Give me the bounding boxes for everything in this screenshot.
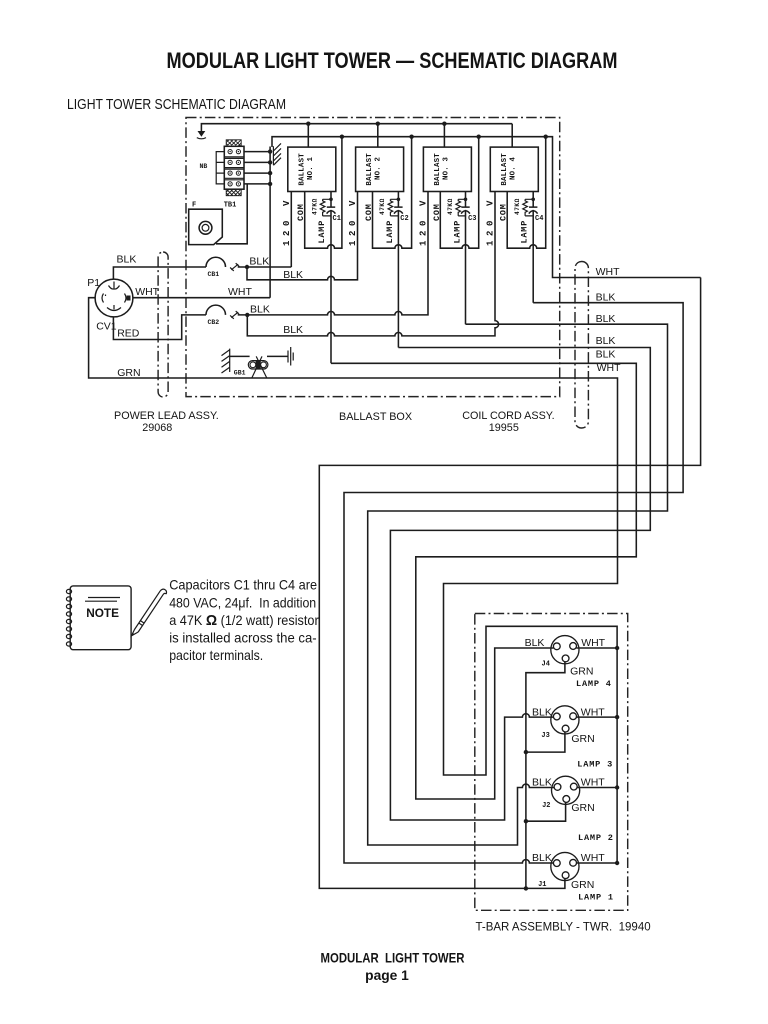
- wire RED plug to CB2: [113, 315, 206, 340]
- svg-text:BLK: BLK: [532, 706, 552, 718]
- svg-text:F: F: [192, 201, 196, 209]
- circuit breaker CB2 blade: [230, 311, 239, 319]
- svg-text:RED: RED: [117, 327, 140, 339]
- svg-text:POWER LEAD ASSY.: POWER LEAD ASSY.: [114, 410, 219, 422]
- wire COM U3 to neutral riser: [440, 137, 478, 249]
- plug P1 right contact: [125, 294, 127, 303]
- wire WHT J3 to bus: [576, 716, 617, 718]
- wire LAMP U1 vertical: [330, 192, 332, 364]
- neutral bus line B: [272, 137, 701, 278]
- svg-text:LAMP: LAMP: [520, 220, 530, 244]
- fuse F wire from TB1 row4: [216, 184, 247, 244]
- svg-text:J2: J2: [542, 802, 550, 810]
- wire GRN J2: [526, 802, 566, 821]
- wire LAMP U4 vertical: [532, 192, 534, 303]
- wire WHT plug to TB1 bus: [133, 297, 270, 299]
- TB1 hatched caps: [226, 140, 241, 196]
- wire WHT J1 to bus: [576, 862, 617, 864]
- svg-text:BALLAST: BALLAST: [366, 153, 374, 186]
- svg-text:47KΩ: 47KΩ: [514, 198, 521, 215]
- ground bus line A with arrow: [201, 124, 512, 132]
- ground bolt GB1 stub right: [267, 355, 288, 357]
- svg-text:TB1: TB1: [224, 202, 237, 210]
- svg-text:WHT: WHT: [228, 286, 252, 298]
- GRN bus vertical: [526, 662, 565, 889]
- ballast U2 box: [356, 147, 404, 191]
- junctions on line A: [306, 122, 310, 126]
- ballast top stubs: [308, 124, 512, 147]
- svg-text:GRN: GRN: [571, 733, 594, 745]
- svg-text:BALLAST: BALLAST: [501, 153, 509, 186]
- fuse F box: [189, 209, 223, 244]
- svg-text:BLK: BLK: [532, 777, 552, 789]
- svg-text:page 1: page 1: [365, 968, 409, 983]
- svg-text:J3: J3: [541, 732, 549, 740]
- svg-text:WHT: WHT: [135, 286, 159, 298]
- wire BLK U2 lamp out to J3: [390, 348, 650, 821]
- resistor R4 47K: [523, 199, 533, 216]
- wire BLK U3 lamp out to J2: [368, 324, 668, 845]
- svg-text:COM: COM: [432, 203, 442, 221]
- svg-text:GRN: GRN: [117, 367, 140, 379]
- t-bar assembly dashed border: [475, 614, 628, 911]
- TB1 neutral bus vertical: [269, 147, 271, 298]
- svg-text:47KΩ: 47KΩ: [447, 198, 454, 215]
- svg-text:MODULAR LIGHT TOWER — SCHEMATI: MODULAR LIGHT TOWER — SCHEMATIC DIAGRAM: [167, 48, 618, 73]
- svg-text:LAMP 1: LAMP 1: [578, 892, 614, 902]
- svg-text:120 V: 120 V: [282, 196, 292, 246]
- plug P1 body: [95, 279, 133, 317]
- terminal block TB1 body: [224, 146, 244, 189]
- svg-text:CB2: CB2: [208, 319, 220, 326]
- lamp connector J2: [552, 776, 580, 804]
- coil cord cable capsule: [575, 262, 588, 429]
- svg-text:LAMP 2: LAMP 2: [578, 833, 614, 843]
- junctions on line B: [340, 135, 344, 139]
- wire BLK plug to CB1: [113, 267, 206, 279]
- ground bolt GB1 wing nut: [248, 361, 268, 369]
- ballast box dashed border: [186, 118, 560, 397]
- svg-text:NB: NB: [200, 163, 208, 170]
- ground bars right of GB1: [288, 347, 293, 366]
- svg-text:J1: J1: [538, 881, 546, 889]
- wire WHT J2 to bus: [577, 787, 617, 789]
- svg-text:WHT: WHT: [581, 777, 605, 789]
- wire WHT exit1 to lamp GRN bus: [319, 278, 700, 889]
- junction CB1 out: [245, 265, 249, 269]
- resistor R1 47K: [320, 199, 331, 216]
- svg-text:LAMP: LAMP: [453, 220, 463, 244]
- wire CB1 branch to ballast 2 (120V): [247, 192, 358, 280]
- svg-text:a 47K Ω (1/2 watt) resistor: a 47K Ω (1/2 watt) resistor: [169, 612, 319, 629]
- svg-text:WHT: WHT: [581, 706, 605, 718]
- lamp connector J3: [551, 706, 579, 734]
- svg-text:BALLAST: BALLAST: [434, 153, 442, 186]
- svg-text:29068: 29068: [142, 422, 172, 434]
- svg-text:BLK: BLK: [525, 637, 545, 649]
- svg-text:COM: COM: [499, 203, 509, 221]
- chassis hatch at TB1 bus: [273, 143, 281, 165]
- wire LAMP U2 vertical: [397, 192, 399, 348]
- svg-text:47KΩ: 47KΩ: [379, 198, 386, 215]
- plug P1 left contact: [102, 294, 106, 303]
- ballast U1 box: [288, 147, 336, 191]
- svg-text:WHT: WHT: [596, 266, 620, 278]
- svg-text:120 V: 120 V: [419, 196, 429, 246]
- svg-text:P1: P1: [87, 277, 100, 289]
- svg-text:C1: C1: [333, 215, 341, 223]
- svg-text:BLK: BLK: [596, 313, 616, 325]
- wire WHT J4 to bus: [576, 647, 617, 649]
- svg-text:WHT: WHT: [581, 852, 605, 864]
- wire GRN J1: [526, 879, 565, 889]
- junction GRN bus bottom: [524, 886, 528, 890]
- capacitor C1: [327, 207, 336, 214]
- lamp connector J4: [551, 636, 579, 664]
- svg-text:GRN: GRN: [570, 666, 593, 678]
- svg-text:GRN: GRN: [571, 879, 594, 891]
- svg-text:BLK: BLK: [596, 335, 616, 347]
- TB1 right wires to bus: [244, 152, 270, 184]
- svg-text:BALLAST: BALLAST: [298, 153, 306, 186]
- resistor R3 47K: [456, 199, 466, 216]
- note pad icon: [70, 586, 131, 650]
- svg-text:NO. 1: NO. 1: [307, 156, 315, 180]
- svg-text:BLK: BLK: [250, 303, 270, 315]
- svg-text:BLK: BLK: [283, 324, 303, 336]
- svg-text:C2: C2: [400, 215, 408, 223]
- circuit breaker CB2 arc: [206, 305, 226, 315]
- svg-text:NO. 3: NO. 3: [442, 156, 450, 180]
- svg-text:BLK: BLK: [283, 269, 303, 281]
- svg-text:NO. 2: NO. 2: [375, 157, 383, 180]
- wire BLK U4 lamp out to J1: [344, 303, 683, 863]
- lamp connector J1: [551, 852, 579, 880]
- svg-text:GRN: GRN: [571, 802, 594, 814]
- svg-text:Capacitors C1 thru C4 are: Capacitors C1 thru C4 are: [169, 578, 317, 593]
- svg-text:is installed across the ca-: is installed across the ca-: [169, 631, 317, 646]
- svg-text:47KΩ: 47KΩ: [311, 198, 318, 215]
- svg-text:19955: 19955: [489, 422, 519, 434]
- svg-text:C3: C3: [468, 215, 476, 223]
- svg-text:LAMP: LAMP: [317, 220, 327, 244]
- svg-text:T-BAR ASSEMBLY - TWR. 19940: T-BAR ASSEMBLY - TWR. 19940: [476, 921, 651, 933]
- wire CB1 to ballast 1 (120V): [238, 192, 292, 268]
- wire CB2 branch to ballast 4 (120V): [247, 192, 498, 336]
- circuit breaker CB1 arc: [206, 257, 226, 267]
- ballast U3 box: [423, 147, 471, 191]
- svg-text:GB1: GB1: [234, 370, 246, 377]
- circuit breaker CB1 blade: [230, 263, 239, 271]
- TB1 screws: [228, 150, 240, 186]
- svg-text:COM: COM: [296, 203, 306, 221]
- resistor R2 47K: [388, 199, 398, 216]
- svg-text:LAMP 4: LAMP 4: [576, 679, 612, 689]
- plug P1 top contact: [109, 282, 120, 290]
- wire GRN J3: [526, 732, 565, 752]
- junctions on TB1 bus: [268, 149, 272, 153]
- svg-text:BLK: BLK: [596, 291, 616, 303]
- wire COM U1 to neutral riser: [305, 137, 342, 249]
- svg-text:LAMP 3: LAMP 3: [577, 760, 613, 770]
- svg-text:BLK: BLK: [596, 349, 616, 361]
- svg-text:480 VAC, 24μf. In addition: 480 VAC, 24μf. In addition: [169, 595, 316, 610]
- capacitor C4: [529, 207, 538, 214]
- ground bolt GB1 hatch: [222, 349, 230, 373]
- svg-text:NOTE: NOTE: [86, 606, 119, 620]
- svg-text:CB1: CB1: [208, 271, 220, 278]
- TB1 row separators: [224, 157, 244, 180]
- wire LAMP U3 vertical: [465, 192, 467, 325]
- power lead cable capsule: [158, 252, 168, 397]
- svg-text:COM: COM: [364, 203, 374, 221]
- svg-text:LIGHT TOWER SCHEMATIC DIAGRAM: LIGHT TOWER SCHEMATIC DIAGRAM: [67, 97, 286, 113]
- svg-text:120 V: 120 V: [486, 196, 496, 246]
- svg-text:C4: C4: [535, 215, 543, 223]
- TB1 left bracket wires: [216, 152, 224, 184]
- svg-text:COIL CORD ASSY.: COIL CORD ASSY.: [462, 410, 554, 422]
- svg-text:NO. 4: NO. 4: [509, 156, 517, 180]
- wire BLK U1 lamp out to J4: [331, 363, 636, 799]
- svg-text:WHT: WHT: [581, 637, 605, 649]
- wire COM U2 to neutral riser: [373, 137, 412, 249]
- svg-text:BALLAST BOX: BALLAST BOX: [339, 411, 412, 423]
- ground bolt GB1 stub left: [230, 355, 250, 357]
- svg-text:BLK: BLK: [249, 256, 269, 268]
- wire CB2 to ballast 3 (120V): [238, 192, 428, 315]
- svg-text:BLK: BLK: [117, 253, 137, 265]
- wire COM U4 to neutral riser: [507, 137, 546, 249]
- ground bolt GB1 X legs: [252, 356, 267, 378]
- capacitor C2: [394, 207, 403, 214]
- svg-text:120 V: 120 V: [348, 196, 358, 246]
- svg-text:pacitor terminals.: pacitor terminals.: [169, 648, 263, 663]
- junction CB2 out: [245, 313, 249, 317]
- wire GRN plug to coil cord (WHT): [89, 298, 618, 863]
- capacitor C3: [461, 207, 470, 214]
- svg-text:LAMP: LAMP: [385, 220, 395, 244]
- ballast U4 box: [490, 147, 538, 191]
- pencil icon: [132, 589, 167, 636]
- svg-text:J4: J4: [542, 661, 550, 669]
- svg-text:MODULAR LIGHT TOWER: MODULAR LIGHT TOWER: [321, 951, 465, 966]
- plug P1 bottom contact: [107, 305, 121, 311]
- svg-text:BLK: BLK: [532, 852, 552, 864]
